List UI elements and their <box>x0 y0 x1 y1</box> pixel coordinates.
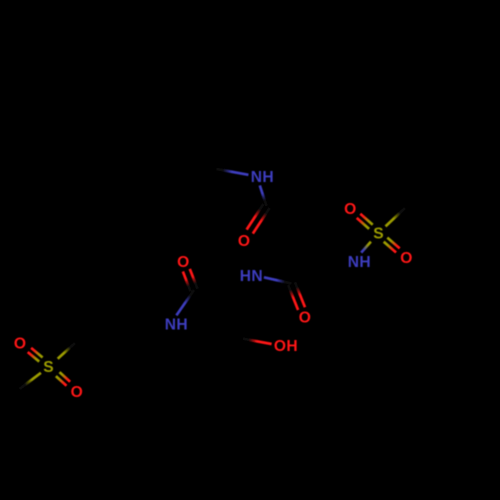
double bond S=O lower-right (methanesulfonamide) <box>384 238 400 253</box>
double bond C=O (left amide) <box>183 269 198 291</box>
bond CH3-N (top amide N-methyl) <box>217 169 249 175</box>
svg-text:NH: NH <box>348 254 371 271</box>
svg-text:O: O <box>400 250 413 267</box>
bond CH3-OH (methanol) <box>243 339 272 344</box>
svg-text:OH: OH <box>274 338 298 355</box>
double bond S=O lower-right (dimethyl sulfone) <box>56 372 70 386</box>
bond S-CH3 lower-left (dimethyl sulfone) <box>20 373 41 389</box>
bond N-C (top amide) <box>260 185 267 206</box>
double bond S=O upper-left (dimethyl sulfone) <box>28 348 43 362</box>
svg-text:O: O <box>71 384 84 401</box>
svg-text:HN: HN <box>240 268 263 285</box>
bond C-N (left amide) <box>176 290 194 315</box>
bond S-CH3 upper-right (dimethyl sulfone) <box>58 343 75 359</box>
svg-text:S: S <box>43 359 54 376</box>
svg-text:O: O <box>299 310 312 327</box>
svg-text:O: O <box>344 201 357 218</box>
double bond C=O (top amide) <box>247 204 270 234</box>
bond N-C (central amide) <box>264 277 292 283</box>
svg-text:O: O <box>14 335 27 352</box>
svg-text:O: O <box>238 233 251 250</box>
svg-text:O: O <box>177 254 190 271</box>
svg-text:NH: NH <box>165 317 188 334</box>
bond S-N (methanesulfonamide) <box>361 242 371 253</box>
bond S-CH3 (methanesulfonamide) <box>386 208 406 226</box>
double bond C=O (central amide) <box>288 282 305 310</box>
svg-text:NH: NH <box>251 169 274 186</box>
svg-text:S: S <box>373 226 384 243</box>
double bond S=O upper-left (methanesulfonamide) <box>357 214 373 229</box>
